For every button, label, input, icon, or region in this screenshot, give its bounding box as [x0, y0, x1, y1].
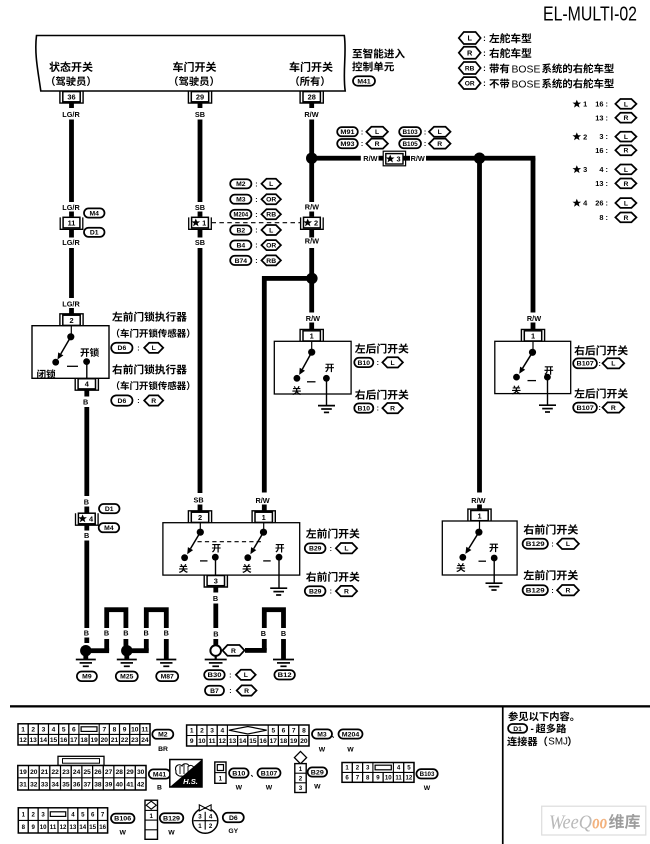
- svg-text:2: 2: [299, 776, 303, 783]
- svg-text:2: 2: [209, 823, 213, 830]
- svg-text::: :: [330, 589, 332, 596]
- svg-text:17: 17: [270, 738, 278, 745]
- svg-text:16: 16: [60, 737, 68, 744]
- left front door switch contact B: [244, 523, 282, 588]
- svg-text:R: R: [623, 181, 628, 188]
- svg-text:W: W: [119, 830, 126, 837]
- svg-text::: :: [255, 258, 257, 265]
- svg-text:R/W: R/W: [471, 496, 485, 505]
- svg-text:2: 2: [314, 218, 318, 227]
- svg-text:LG/R: LG/R: [62, 300, 80, 309]
- svg-text:B12: B12: [278, 672, 292, 679]
- wire R/W main vertical: [309, 120, 314, 313]
- connector B29 pinout: [294, 751, 327, 792]
- svg-text:M9: M9: [82, 674, 92, 681]
- svg-text:18: 18: [280, 738, 288, 745]
- svg-text:14: 14: [79, 824, 86, 831]
- wire label B: [83, 398, 88, 407]
- svg-text::: :: [377, 406, 379, 413]
- svg-text:R: R: [623, 115, 628, 122]
- connector M3 M204 pinout: [187, 725, 363, 754]
- ground M25: [116, 651, 138, 681]
- svg-text:B105: B105: [402, 141, 418, 148]
- svg-text:12: 12: [406, 775, 413, 782]
- svg-text:4: 4: [52, 727, 56, 734]
- svg-text:14: 14: [40, 737, 48, 744]
- svg-text:10: 10: [131, 727, 139, 734]
- svg-text::: :: [599, 405, 601, 412]
- right front door switch box: [442, 521, 517, 575]
- svg-text:8 :: 8 :: [599, 213, 608, 222]
- svg-text:10: 10: [385, 775, 392, 782]
- pin 1: [468, 509, 491, 521]
- svg-text:M93: M93: [340, 141, 354, 148]
- svg-text:1: 1: [219, 776, 223, 783]
- connector B103 pinout: [342, 763, 438, 793]
- bottom separator rule: [10, 705, 650, 707]
- label open: [489, 544, 498, 553]
- svg-text:L: L: [624, 200, 628, 207]
- svg-text::: :: [551, 588, 553, 595]
- svg-text:B29: B29: [309, 589, 322, 596]
- wire B lower segment: [84, 541, 89, 629]
- svg-text:16: 16: [99, 824, 106, 831]
- svg-text::: :: [361, 129, 363, 136]
- svg-text:L: L: [344, 546, 348, 553]
- svg-text:R: R: [244, 688, 249, 695]
- label closed: [456, 563, 465, 572]
- label closed: [242, 564, 251, 573]
- svg-text:B: B: [123, 628, 128, 637]
- pin 28: [300, 91, 323, 108]
- wire label R/W: [304, 110, 318, 119]
- svg-text:36: 36: [67, 92, 75, 101]
- hexagon R variant tag: [223, 645, 245, 656]
- left front door switch contact A: [181, 523, 219, 576]
- svg-text:SMJ: SMJ: [548, 737, 568, 748]
- title EL-MULTI-02: [543, 3, 637, 26]
- label left front door switch: [523, 570, 578, 580]
- label unlock: [80, 348, 99, 357]
- label right front door switch: [524, 524, 579, 534]
- svg-text:B: B: [143, 628, 148, 637]
- svg-text:22: 22: [52, 769, 60, 776]
- svg-text:16: 16: [259, 738, 267, 745]
- svg-text:1: 1: [149, 813, 153, 820]
- svg-text:11: 11: [209, 738, 216, 745]
- svg-text:RB: RB: [266, 212, 276, 219]
- svg-text::: :: [229, 688, 231, 695]
- svg-text:L: L: [375, 129, 379, 136]
- svg-text:B129: B129: [526, 588, 545, 595]
- jumper wire M9-M25: [86, 607, 129, 653]
- svg-text:OR: OR: [266, 243, 276, 250]
- svg-text:M4: M4: [89, 210, 99, 217]
- svg-text:2: 2: [32, 811, 36, 818]
- pin 2: [60, 314, 83, 326]
- label left rear door switch: [355, 343, 409, 353]
- svg-text:15: 15: [249, 738, 257, 745]
- unit label door switch (driver): [173, 62, 216, 86]
- svg-text:L: L: [244, 672, 248, 679]
- svg-text::: :: [361, 141, 363, 148]
- svg-text:20: 20: [101, 737, 109, 744]
- svg-text::: :: [330, 546, 332, 553]
- svg-text:WeeQ: WeeQ: [549, 813, 592, 834]
- svg-text:2: 2: [200, 728, 204, 735]
- svg-text:11: 11: [50, 824, 57, 831]
- label open: [325, 364, 334, 373]
- note super multiple junction (SMJ): [507, 736, 571, 747]
- svg-text:B4: B4: [236, 243, 245, 250]
- svg-text:R: R: [437, 141, 442, 148]
- svg-text:M3: M3: [236, 197, 246, 204]
- label closed: [292, 386, 301, 395]
- svg-text::: :: [255, 212, 257, 219]
- svg-text:R: R: [611, 405, 616, 412]
- svg-text:34: 34: [52, 781, 60, 788]
- svg-text:13: 13: [30, 737, 38, 744]
- label right rear door switch: [355, 389, 409, 399]
- label lock: [37, 369, 55, 378]
- ground M9: [76, 651, 97, 681]
- svg-text:13 :: 13 :: [595, 179, 608, 188]
- svg-text:6: 6: [282, 728, 286, 735]
- svg-text:B: B: [157, 785, 162, 792]
- wire label R/W: [363, 154, 385, 163]
- watermark WeeQoo: [542, 806, 646, 835]
- connector note M93:R: [337, 139, 388, 149]
- svg-text:24: 24: [141, 737, 149, 744]
- svg-text:D6: D6: [118, 345, 127, 352]
- connector B29:R: [305, 586, 357, 596]
- svg-text:4: 4: [71, 811, 75, 818]
- svg-text:8: 8: [366, 775, 370, 782]
- connector circle B30: [210, 645, 221, 656]
- label left rear door switch: [574, 388, 628, 398]
- svg-text:R: R: [623, 215, 628, 222]
- svg-text:3: 3: [583, 165, 587, 174]
- pin 1: [300, 329, 323, 341]
- wire label R/W: [471, 496, 485, 510]
- svg-text:R: R: [623, 148, 628, 155]
- pin 1: [521, 329, 544, 341]
- svg-text:H.S.: H.S.: [183, 777, 198, 786]
- svg-text:B10: B10: [358, 360, 371, 367]
- wire to B12 ground: [245, 607, 286, 659]
- svg-text:B: B: [213, 594, 218, 603]
- pin 29: [188, 91, 211, 108]
- svg-text:10: 10: [198, 738, 206, 745]
- svg-text:41: 41: [126, 781, 134, 788]
- svg-text:D1: D1: [90, 230, 99, 237]
- svg-text:D6: D6: [118, 398, 127, 405]
- connector D6:L: [111, 343, 163, 353]
- unit label status switch (driver): [49, 62, 92, 86]
- svg-text:R/W: R/W: [306, 314, 320, 323]
- svg-text:W: W: [314, 784, 321, 791]
- svg-text:23: 23: [62, 769, 70, 776]
- svg-text:R: R: [375, 141, 380, 148]
- svg-text:30: 30: [137, 769, 145, 776]
- svg-text::: :: [483, 49, 486, 58]
- wire R/W branch to left front door switch: [262, 276, 312, 493]
- svg-text:20: 20: [300, 738, 308, 745]
- svg-text:D6: D6: [229, 815, 238, 822]
- svg-text:W: W: [424, 785, 431, 792]
- svg-text::: :: [377, 360, 379, 367]
- svg-text:R: R: [566, 588, 571, 595]
- pin 4: [75, 378, 98, 396]
- svg-text:3: 3: [42, 727, 46, 734]
- connector B10 B107 pinout: [215, 762, 281, 792]
- svg-text:M87: M87: [161, 674, 174, 681]
- svg-text:33: 33: [41, 781, 49, 788]
- label right front door lock actuator: [112, 364, 189, 390]
- svg-text:3: 3: [198, 814, 202, 821]
- svg-text:2: 2: [356, 765, 360, 772]
- svg-text:BOSE: BOSE: [512, 79, 541, 90]
- ground left rear door switch: [318, 406, 335, 413]
- svg-text:B74: B74: [235, 258, 248, 265]
- svg-text:5: 5: [62, 727, 66, 734]
- star table pin substitutions *1-*4: [573, 99, 637, 222]
- svg-text:3: 3: [397, 155, 401, 164]
- svg-text:40: 40: [116, 781, 124, 788]
- svg-text:12: 12: [219, 738, 227, 745]
- svg-text:LG/R: LG/R: [62, 238, 80, 247]
- svg-text:LG/R: LG/R: [62, 203, 80, 212]
- svg-text:1: 1: [262, 513, 266, 522]
- left rear door switch contacts: [294, 341, 330, 405]
- wire label LG/R: [62, 110, 80, 119]
- svg-text:35: 35: [62, 781, 70, 788]
- svg-text:23: 23: [131, 737, 139, 744]
- connector B129:R: [523, 585, 579, 595]
- svg-text:oo: oo: [592, 813, 607, 834]
- svg-text:BR: BR: [158, 746, 168, 753]
- svg-text:B129: B129: [163, 815, 180, 822]
- svg-text::: :: [255, 181, 257, 188]
- svg-text:1: 1: [583, 100, 587, 109]
- connector B10:R: [354, 403, 403, 413]
- svg-text:D1: D1: [105, 506, 114, 513]
- wire label B: [84, 629, 89, 644]
- svg-text:28: 28: [116, 769, 124, 776]
- wire label SB: [195, 203, 205, 217]
- svg-text:13: 13: [70, 824, 77, 831]
- svg-text:B103: B103: [402, 129, 418, 136]
- wire label B: [84, 498, 89, 514]
- svg-text:B30: B30: [208, 672, 222, 679]
- svg-text:4 :: 4 :: [599, 165, 608, 174]
- svg-text:B29: B29: [309, 546, 322, 553]
- svg-text:B: B: [213, 630, 218, 639]
- svg-text:R: R: [467, 49, 473, 58]
- svg-text:13 :: 13 :: [595, 113, 608, 122]
- wire label LG/R: [62, 203, 80, 217]
- svg-text:9: 9: [190, 738, 194, 745]
- svg-text:R: R: [231, 648, 236, 655]
- svg-text:18: 18: [80, 737, 88, 744]
- svg-text:17: 17: [70, 737, 78, 744]
- svg-text:B: B: [84, 629, 89, 638]
- label closed: [512, 385, 521, 394]
- unit box to intelligent entry control unit: [36, 36, 345, 92]
- svg-text:M41: M41: [357, 78, 370, 85]
- svg-text:1: 1: [310, 332, 314, 341]
- svg-text:OR: OR: [465, 81, 475, 88]
- connector B29:L: [305, 543, 357, 553]
- label right front door switch: [306, 572, 360, 582]
- svg-text:B107: B107: [261, 770, 278, 777]
- svg-text:7: 7: [292, 728, 296, 735]
- svg-text::: :: [424, 129, 426, 136]
- svg-text::: :: [255, 228, 257, 235]
- svg-text:W: W: [236, 785, 243, 792]
- svg-text:9: 9: [123, 727, 127, 734]
- svg-text:L: L: [391, 360, 395, 367]
- wire B from left front door switch: [213, 594, 218, 628]
- label open: [544, 366, 553, 375]
- right rear door switch box: [495, 341, 571, 393]
- svg-text:38: 38: [94, 781, 102, 788]
- svg-text:SB: SB: [195, 203, 205, 212]
- inline connector star4 (D1/M4): [76, 504, 120, 532]
- junction dot ground M9: [80, 645, 91, 656]
- connector B106 pinout: [18, 808, 134, 837]
- svg-text:EL-MULTI-02: EL-MULTI-02: [543, 3, 637, 26]
- svg-text:L: L: [152, 345, 156, 352]
- ground right front door switch: [486, 583, 503, 590]
- junction dot 1: [306, 153, 317, 164]
- inline connector 11 (M4/D1): [60, 208, 104, 237]
- note see the following: [508, 711, 573, 721]
- svg-text:26: 26: [94, 769, 102, 776]
- svg-text:M2: M2: [236, 181, 246, 188]
- svg-text:7: 7: [102, 727, 106, 734]
- svg-text:2: 2: [31, 727, 35, 734]
- wire B from lock actuator: [84, 407, 89, 496]
- svg-text:12: 12: [60, 824, 67, 831]
- svg-text:9: 9: [32, 824, 36, 831]
- connector B129 pinout: [145, 800, 183, 839]
- svg-text:21: 21: [111, 737, 119, 744]
- wire LG/R upper segment: [69, 120, 74, 203]
- svg-text:SB: SB: [194, 496, 204, 505]
- svg-text:29: 29: [126, 769, 134, 776]
- svg-text:2: 2: [583, 132, 587, 141]
- svg-text:B107: B107: [577, 405, 594, 412]
- svg-text:25: 25: [84, 769, 92, 776]
- label left front door switch: [306, 528, 360, 538]
- svg-text:R/W: R/W: [411, 154, 425, 163]
- left front door switch box: [163, 523, 300, 575]
- svg-text:R/W: R/W: [256, 496, 270, 505]
- svg-text:7: 7: [356, 775, 360, 782]
- connector M2 pinout: [18, 724, 173, 753]
- svg-text:22: 22: [121, 737, 129, 744]
- legend R = RHD models: [459, 47, 531, 59]
- inline connector star1: [189, 217, 212, 229]
- label to intelligent entry control unit: [352, 48, 404, 71]
- svg-text:10: 10: [40, 824, 47, 831]
- wire label SB: [195, 229, 205, 247]
- svg-text:M91: M91: [340, 129, 354, 136]
- svg-text:5: 5: [271, 728, 275, 735]
- wire label R/W: [256, 496, 270, 511]
- label open: [275, 544, 284, 553]
- connector note B105:R: [399, 139, 450, 149]
- svg-text:2: 2: [198, 513, 202, 522]
- svg-text:R/W: R/W: [527, 314, 541, 323]
- svg-text:3: 3: [366, 765, 370, 772]
- connector note M91:L: [337, 127, 388, 137]
- connector B107:L: [573, 358, 624, 368]
- connector D6 pinout: [193, 805, 244, 835]
- svg-text:D1: D1: [513, 726, 522, 733]
- svg-text:B10: B10: [358, 406, 371, 413]
- svg-text:1: 1: [477, 511, 481, 520]
- svg-text:-: -: [531, 724, 534, 735]
- svg-text:B: B: [104, 628, 109, 637]
- svg-text:1: 1: [190, 728, 194, 735]
- svg-text::: :: [137, 345, 139, 352]
- svg-text:6: 6: [91, 811, 95, 818]
- connector applicability column M2/M3/M204/B2/B4/B74: [230, 179, 281, 266]
- left rear door switch box: [274, 341, 351, 394]
- pin 1: [252, 511, 275, 523]
- svg-text:11: 11: [68, 218, 76, 227]
- svg-text::: :: [255, 243, 257, 250]
- wire label LG/R: [62, 300, 80, 316]
- svg-text:M3: M3: [317, 731, 327, 738]
- svg-text:B103: B103: [420, 771, 435, 778]
- svg-text:B129: B129: [526, 541, 545, 548]
- junction dot 3: [474, 153, 485, 164]
- svg-text:L: L: [438, 129, 442, 136]
- svg-text:3: 3: [299, 785, 303, 792]
- connector M41 pinout: [18, 756, 171, 791]
- svg-text:M4: M4: [104, 525, 114, 532]
- svg-text:RB: RB: [465, 65, 475, 72]
- svg-text:14: 14: [239, 738, 247, 745]
- svg-text:5: 5: [407, 765, 411, 772]
- svg-text:15: 15: [89, 824, 96, 831]
- svg-text:M2: M2: [158, 732, 168, 739]
- svg-text:39: 39: [105, 781, 113, 788]
- svg-text:GY: GY: [228, 828, 238, 835]
- dashed connector link star1 to star2: [212, 222, 301, 224]
- connector B7:R: [205, 685, 257, 695]
- svg-text:M25: M25: [120, 674, 133, 681]
- connector B30:L: [204, 670, 256, 680]
- inline connector star2: [301, 203, 324, 246]
- wire R/W horizontal branch: [312, 156, 361, 161]
- svg-text:19: 19: [19, 769, 27, 776]
- mechanical link dashed: [198, 541, 263, 543]
- wire SB upper segment: [198, 120, 203, 203]
- svg-text::: :: [483, 34, 486, 43]
- svg-text:1: 1: [531, 332, 535, 341]
- svg-text:L: L: [624, 101, 628, 108]
- right front door switch contacts: [459, 521, 497, 583]
- svg-text:B: B: [84, 498, 89, 507]
- svg-text:B: B: [84, 531, 89, 540]
- right rear door switch contacts: [513, 341, 551, 405]
- front door lock actuator box: [32, 326, 109, 379]
- connector B129:L: [523, 539, 579, 549]
